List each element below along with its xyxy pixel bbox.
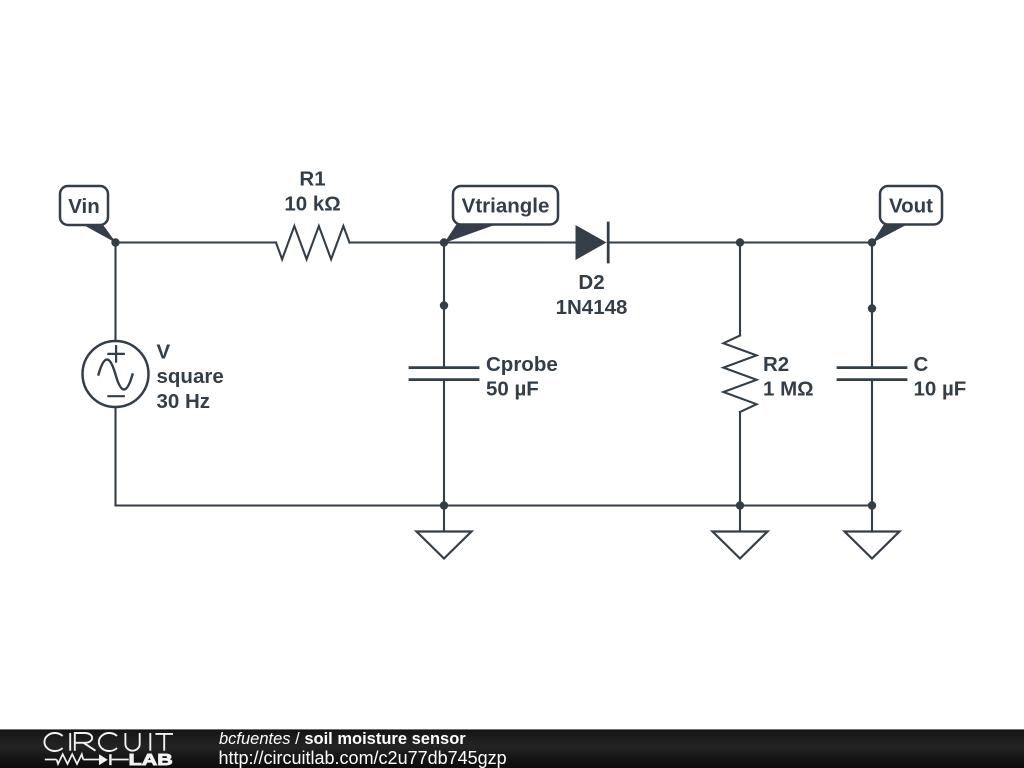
wire: Vtriangle node down to Cprobe [443, 243, 445, 367]
logo letter R [75, 733, 96, 751]
watermark bar [0, 729, 1024, 768]
logo diode triangle [99, 754, 108, 765]
resistor R1 [276, 226, 350, 259]
junction dot bottom rail at C [868, 501, 876, 509]
node label box Vin [60, 186, 108, 225]
node dot Vtriangle [440, 238, 448, 246]
svg-text:1N4148: 1N4148 [556, 296, 628, 319]
svg-text:V: V [157, 340, 171, 363]
terminal dot on Cprobe wire [440, 301, 448, 309]
svg-text:http://circuitlab.com/c2u77db7: http://circuitlab.com/c2u77db745gzp [219, 748, 507, 768]
wire bottom rail [116, 504, 873, 506]
wire top: R1 to diode [350, 241, 576, 243]
diode D2 triangle [576, 225, 607, 260]
wire: Vout node down to capacitor C [871, 243, 873, 367]
wire: top rail down to R2 [739, 243, 741, 336]
wire top: Vin node to R1 [116, 241, 277, 243]
logo letter U [125, 733, 139, 751]
ground stub under C [871, 506, 873, 532]
flag pointer Vin [83, 225, 116, 243]
wire top: diode to Vout node [608, 241, 872, 243]
wire left: Vin node down to source V [114, 243, 116, 342]
flag pointer Vtriangle [444, 224, 494, 243]
wire: capacitor C to bottom rail [871, 381, 873, 506]
svg-text:C: C [914, 353, 929, 376]
wire: R2 to bottom rail [739, 412, 741, 506]
node label box Vtriangle [453, 186, 558, 225]
ground stub under R2 [739, 506, 741, 532]
diode D2 cathode bar [607, 223, 610, 262]
svg-text:50 µF: 50 µF [486, 378, 539, 401]
ground symbol under Cprobe [417, 532, 472, 559]
ground stub under Cprobe [443, 506, 445, 532]
logo letter I [69, 733, 71, 751]
svg-text:LAB: LAB [129, 752, 173, 768]
resistor R2 [723, 336, 756, 413]
voltage source V plus sign [108, 346, 123, 361]
svg-text:bcfuentes / soil moisture sens: bcfuentes / soil moisture sensor [219, 730, 466, 748]
svg-text:10 kΩ: 10 kΩ [284, 193, 340, 216]
voltage source V sine [99, 360, 133, 390]
svg-text:Vin: Vin [68, 195, 100, 218]
voltage source V minus sign [108, 395, 123, 397]
logo letter T [155, 734, 173, 751]
logo letter I [149, 733, 151, 751]
terminal dot on C wire [868, 304, 876, 312]
logo letter C [44, 733, 62, 751]
svg-text:D2: D2 [578, 271, 604, 294]
logo diode bar [109, 754, 111, 765]
logo wire right [112, 759, 129, 761]
voltage source V circle [83, 341, 149, 407]
svg-text:Vout: Vout [889, 195, 933, 218]
junction dot bottom rail at R2 [736, 501, 744, 509]
junction dot top rail at R2 [736, 238, 744, 246]
node dot Vout [868, 238, 876, 246]
wire left: source V to bottom rail [114, 407, 116, 506]
flag pointer Vout [872, 224, 907, 243]
logo resistor [57, 754, 84, 764]
svg-text:Cprobe: Cprobe [486, 353, 558, 376]
ground symbol under C [845, 532, 900, 559]
logo wire mid [83, 759, 99, 761]
svg-text:square: square [157, 365, 224, 388]
svg-text:R2: R2 [763, 353, 789, 376]
svg-text:Vtriangle: Vtriangle [462, 195, 550, 218]
logo letter C [99, 733, 117, 751]
svg-text:1 MΩ: 1 MΩ [763, 378, 814, 401]
logo wire left [45, 759, 57, 761]
svg-text:10 µF: 10 µF [914, 378, 967, 401]
svg-text:30 Hz: 30 Hz [157, 390, 211, 413]
svg-text:R1: R1 [299, 168, 325, 191]
wire: Cprobe to bottom rail [443, 381, 445, 506]
ground symbol under R2 [713, 532, 768, 559]
capacitor C plates [838, 368, 906, 380]
junction dot bottom rail at Cprobe [440, 501, 448, 509]
node dot Vin [111, 238, 119, 246]
node label box Vout [880, 186, 942, 225]
capacitor Cprobe plates [410, 368, 478, 380]
